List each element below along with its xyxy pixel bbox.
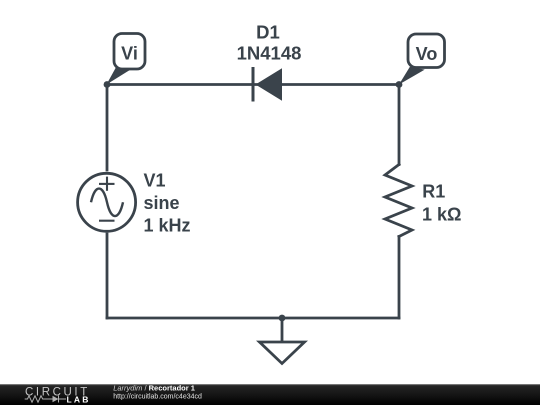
svg-text:1 kΩ: 1 kΩ — [422, 205, 461, 225]
svg-text:http://circuitlab.com/c4e34cd: http://circuitlab.com/c4e34cd — [113, 394, 202, 401]
svg-text:1 kHz: 1 kHz — [144, 215, 191, 235]
svg-text:V1: V1 — [144, 171, 166, 191]
svg-text:LAB: LAB — [67, 394, 91, 404]
svg-text:Larrydim / Recortador 1: Larrydim / Recortador 1 — [113, 383, 195, 392]
svg-text:1N4148: 1N4148 — [237, 43, 302, 64]
svg-text:Vi: Vi — [121, 43, 138, 63]
svg-text:D1: D1 — [256, 21, 280, 42]
svg-text:sine: sine — [144, 193, 180, 213]
svg-text:R1: R1 — [422, 182, 445, 202]
svg-text:Vo: Vo — [416, 44, 438, 64]
